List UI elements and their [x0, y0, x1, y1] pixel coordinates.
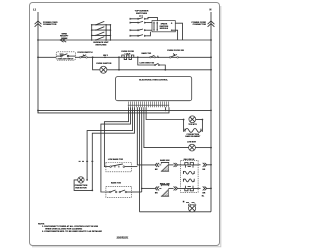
svg-text:TOD BTR: TOD BTR [188, 124, 197, 126]
node junction N top [210, 39, 212, 41]
surface burner switch rung 3 [92, 34, 111, 36]
bake ignitor hatched symbol [161, 162, 169, 163]
wire broil ignitor to connector [168, 187, 173, 189]
wire oven row line [38, 56, 211, 58]
wire into ignitor [159, 164, 161, 166]
switch blades [96, 21, 104, 40]
spark electrode gap marks [186, 202, 195, 204]
svg-text:CONNECTOR: CONNECTOR [193, 24, 207, 26]
power cord connector P2 [208, 21, 215, 27]
node junction branch [137, 56, 139, 58]
ignition switch row 1 [130, 18, 147, 37]
svg-text:2. COMPONENTS MFR. TO BE USED: 2. COMPONENTS MFR. TO BE USED EXACTLY AS… [42, 230, 102, 233]
electronic oven control U2 [116, 77, 192, 101]
wire row2 to module [147, 22, 152, 24]
svg-text:ELECTRONIC OVEN CONTROL: ELECTRONIC OVEN CONTROL [139, 80, 168, 82]
wire valve to N row1 [198, 164, 200, 166]
wire lamp return to N [107, 69, 211, 71]
wire lamp loop up [118, 57, 120, 70]
bimetal squiggle 1 [183, 171, 194, 174]
wire pin to fan loop [92, 107, 134, 190]
gas valve dashed box [181, 160, 199, 192]
wire box1 to cluster [131, 166, 137, 168]
surface burner switch rung 1 [92, 24, 111, 26]
svg-text:LOW OVEN TSD: LOW OVEN TSD [139, 62, 154, 64]
drawing border frame [30, 3, 220, 246]
connector chevrons left row2 [155, 186, 159, 190]
connector chevrons left row1 [155, 163, 159, 167]
wire pin to bake tod box2 [101, 107, 131, 192]
wire pin to ignitor row2 [141, 107, 143, 192]
node junction N row2 [210, 56, 212, 58]
connector chevrons N row2 [203, 186, 207, 190]
svg-text:BAKE TSD: BAKE TSD [141, 52, 151, 55]
wire comb pin to mid line [165, 107, 167, 110]
transformer circle TOD BTR [189, 116, 196, 123]
wire pin to main valve [144, 107, 189, 147]
wire into broil ignitor [159, 187, 161, 189]
spark module U1 [152, 21, 175, 32]
svg-text:OVEN LIGHT SWITCH: OVEN LIGHT SWITCH [58, 59, 74, 61]
wire ignitor to connector [169, 164, 174, 166]
connector chevrons on top line [60, 38, 66, 42]
wire module output 2 to top line [172, 30, 178, 40]
broil valve coil [181, 186, 199, 191]
svg-text:CONNECTOR: CONNECTOR [43, 24, 57, 26]
node junction N lamp return [210, 69, 212, 71]
svg-text:BAKE TOD: BAKE TOD [111, 182, 122, 185]
connector chevrons right row1 [174, 163, 178, 167]
spark electrode circle [189, 205, 196, 212]
oven lamp B1 [100, 66, 107, 73]
wire valve to N row2 [198, 187, 200, 189]
svg-text:1. DISCONNECT POWER AT ALL CON: 1. DISCONNECT POWER AT ALL CONTROLS NOT … [42, 225, 99, 228]
wire pin to fan motor [87, 107, 132, 180]
connector chevrons N row1 [203, 163, 207, 167]
svg-text:N: N [210, 8, 212, 12]
node small junction [104, 57, 106, 59]
convection fan motor M1 [74, 180, 92, 191]
wire bottom return [140, 211, 212, 213]
wire pin to bake tod box1 [104, 107, 128, 166]
surface burner switch rung 2 [92, 29, 111, 31]
svg-text:WHEN OVEN CLOSED FOR CLEANING: WHEN OVEN CLOSED FOR CLEANING [45, 228, 82, 231]
convection bake element squiggle [185, 129, 201, 133]
wire pin to ignitor row1 [137, 107, 155, 165]
connector comb under control [128, 104, 169, 106]
wire top line L1 to N [38, 39, 211, 41]
wire row4 to module bottom [147, 32, 151, 36]
wire N bus [210, 12, 212, 212]
wire row3 to module [147, 29, 152, 31]
wire lamp drop [93, 57, 100, 70]
svg-text:LOW BAKE TOD: LOW BAKE TOD [108, 158, 124, 161]
wire second mid line [38, 107, 169, 113]
drawing border shadow [32, 6, 221, 247]
svg-text:FAN MOTOR: FAN MOTOR [75, 186, 87, 189]
module pins [153, 22, 172, 31]
wire module output to top line [175, 23, 182, 40]
svg-text:316253221: 316253221 [117, 236, 129, 240]
node junction L1 top [37, 39, 39, 41]
element rails [183, 120, 185, 132]
node junction lamp tap [92, 56, 94, 58]
svg-text:DOOR SWITCH: DOOR SWITCH [77, 52, 93, 54]
module pin headers [154, 22, 157, 31]
svg-text:TOD: TOD [60, 54, 65, 56]
svg-text:( 4 ): ( 4 ) [139, 14, 143, 17]
broil ignitor hatched symbol [161, 185, 169, 186]
power cord connector P1 [35, 21, 42, 27]
connector marks on fan wires [86, 160, 93, 162]
oven door lock coil on line [122, 55, 134, 60]
oven light switch S1 dashed box [56, 52, 75, 60]
svg-text:BAKE ELEMENT: BAKE ELEMENT [185, 135, 201, 138]
ladder junction dots [91, 24, 111, 41]
svg-text:SWITCHES: SWITCHES [95, 44, 107, 46]
wire row1 over module top [147, 17, 158, 20]
connector chevrons right row2 [174, 186, 178, 190]
low oven tsd branch [138, 57, 166, 70]
svg-text:BAKE IGN: BAKE IGN [160, 159, 170, 162]
bimetal squiggle 2 [183, 179, 194, 182]
svg-text:LOW BTR: LOW BTR [187, 142, 196, 144]
wire box2 to cluster [131, 191, 141, 193]
wire pin to transformer line [146, 107, 184, 119]
wire L1 to N mid line [38, 109, 211, 111]
svg-text:MODULE: MODULE [160, 28, 169, 30]
svg-text:OVEN IGNITOR: OVEN IGNITOR [96, 63, 112, 65]
wire L1 bus [37, 12, 39, 113]
node junction L1 row2 [37, 56, 39, 58]
wire pin to bottom return [139, 107, 141, 212]
bake valve coil [181, 163, 199, 168]
svg-text:OVEN DOOR SW: OVEN DOOR SW [167, 50, 184, 52]
surface burner switch ladder rails [91, 25, 93, 40]
